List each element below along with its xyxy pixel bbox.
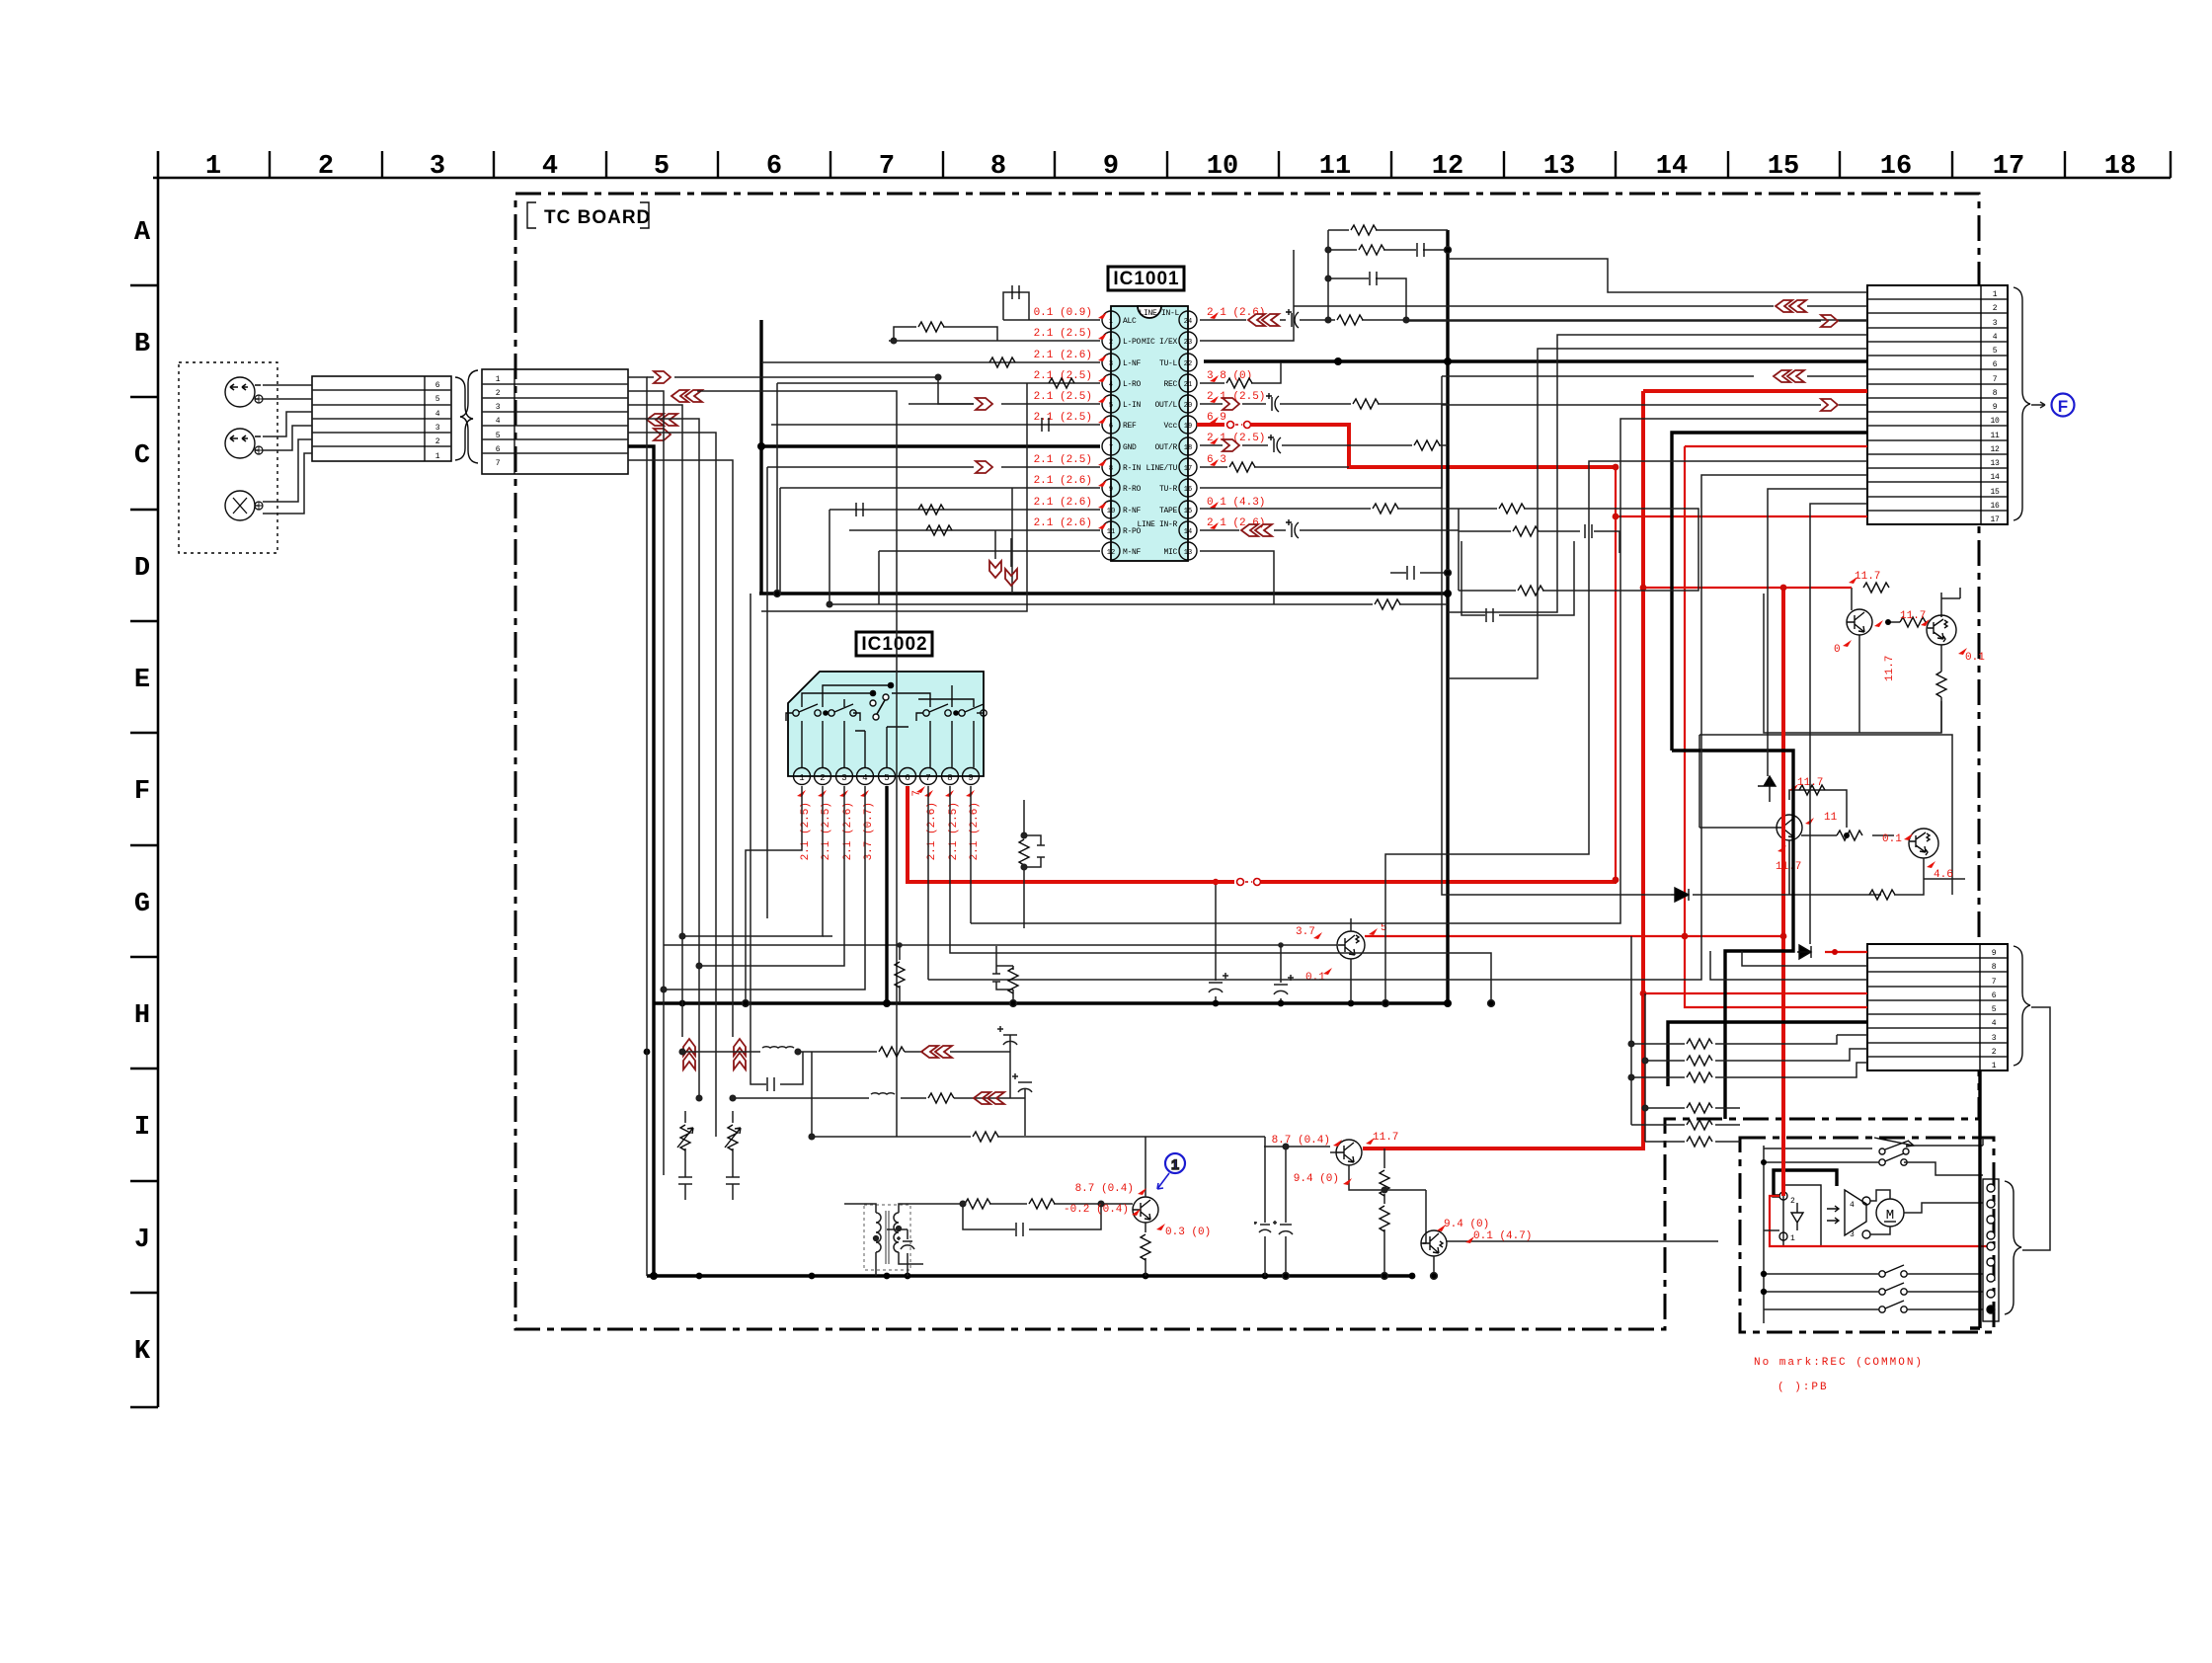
transistor Q1003 [1777,815,1802,840]
record safety switch [1874,1138,1914,1154]
IC1002 body [788,672,984,776]
pin1 ALC [1003,292,1100,320]
diode to cn9 pin9 with red stub [1797,945,1811,959]
svg-text:REC: REC [1163,380,1177,389]
svg-text:LINE/TU: LINE/TU [1145,464,1177,473]
switch contacts [786,704,987,721]
svg-text:7: 7 [911,790,923,797]
svg-text:2.1 (2.5): 2.1 (2.5) [1034,454,1092,466]
svg-text:R-NF: R-NF [1123,507,1142,515]
pin20 OUT/L [1200,403,1448,405]
svg-text:-0.2 (0.4): -0.2 (0.4) [1064,1204,1129,1216]
svg-text:8.7 (0.4): 8.7 (0.4) [1075,1183,1134,1195]
pin12 M-NF [879,550,1100,552]
pin3 L-NF [761,361,1100,363]
inner wires left side [1764,1146,1983,1175]
transistor Q1006 [1336,1140,1362,1165]
svg-text:12: 12 [1432,152,1463,182]
pin18 OUT/R [1200,444,1448,446]
svg-text:5: 5 [496,432,501,440]
svg-text:2: 2 [496,389,501,398]
svg-text:4: 4 [862,773,867,783]
transistor Q1007 [1421,1230,1447,1256]
svg-text:3: 3 [435,424,440,433]
loop left of cluster [1461,541,1574,615]
svg-text:14: 14 [1184,528,1192,536]
svg-text:2: 2 [1992,1048,1997,1057]
svg-text:2.1 (2.5): 2.1 (2.5) [1034,328,1092,340]
svg-text:5: 5 [435,395,440,404]
svg-text:MIC I/EX: MIC I/EX [1142,338,1178,347]
svg-text:16: 16 [1184,486,1192,494]
transistor Q1005 (G row) [664,879,1387,1007]
TC BOARD dash-dot outline [515,194,1979,1329]
transistor Q1008 [1133,1197,1158,1223]
pin13 MIC [1200,551,1448,604]
svg-text:2.1 (2.6): 2.1 (2.6) [1034,475,1092,487]
svg-text:11.7: 11.7 [1373,1132,1398,1144]
svg-text:1: 1 [1109,318,1113,326]
thick jct dots [644,357,1452,1280]
svg-text:LINE IN-R: LINE IN-R [1137,520,1177,529]
svg-text:Vcc: Vcc [1163,422,1177,431]
svg-text:3: 3 [1850,1230,1855,1239]
IC1001 body [1111,306,1188,561]
IC1002 label [856,632,932,656]
resistor-capacitor pair (R/C) lower [992,946,1013,1003]
svg-text:24: 24 [1184,318,1192,326]
svg-text:4: 4 [435,410,440,419]
svg-text:23: 23 [1184,339,1192,347]
internal pin drops [802,721,974,767]
svg-text:TAPE: TAPE [1159,507,1178,515]
svg-text:10: 10 [1990,417,2000,426]
svg-text:11.7: 11.7 [1855,571,1880,583]
svg-text:3: 3 [496,403,501,412]
jack J2 (LINE IN R) [225,429,263,458]
switch S2 [1879,1153,1907,1165]
svg-text:3.7: 3.7 [1296,926,1315,938]
jack J1 (LINE IN L) [225,377,263,407]
svg-text:9: 9 [968,773,973,783]
transistor Q1004 (digital) [1909,829,1938,858]
svg-text:7: 7 [925,773,930,783]
pin strip [1983,1179,1999,1321]
y=1151 row [812,1052,1265,1276]
RC between transformer and Q1 [963,1204,1133,1229]
svg-text:6: 6 [766,152,782,182]
svg-text:IC1001: IC1001 [1113,269,1179,289]
svg-text:7: 7 [496,459,501,468]
svg-text:9.4 (0): 9.4 (0) [1444,1219,1489,1230]
electrolytic on 1302 [1285,1147,1287,1276]
svg-text:8: 8 [1109,465,1113,473]
svg-text:1: 1 [1171,1156,1179,1172]
IC1001 label [1108,267,1184,290]
svg-text:5: 5 [654,152,670,182]
svg-text:L-PO: L-PO [1123,338,1142,347]
red vertical C [1685,446,1867,1007]
column numbers [205,152,2136,182]
svg-text:11: 11 [1990,432,2000,440]
svg-text:A: A [134,218,151,248]
svg-text:1: 1 [1790,1234,1795,1243]
pin6 REF [771,424,1100,426]
svg-text:I: I [134,1113,150,1143]
thick feed line from cn9 down into mech [1970,1070,1980,1328]
svg-text:C: C [134,441,150,471]
connector CN1002 (9 pin) [1867,944,2008,1070]
svg-text:5: 5 [884,773,889,783]
svg-text:2.1 (2.6): 2.1 (2.6) [1034,497,1092,509]
svg-text:0.3 (0): 0.3 (0) [1165,1227,1211,1238]
pin9 R-RO [780,487,1100,489]
transistor Q1002 (digital) [1927,615,1956,645]
pin15 TAPE network [1200,509,1698,591]
svg-text:R-IN: R-IN [1123,464,1142,473]
svg-text:11.7: 11.7 [1776,861,1801,873]
svg-text:2.1 (2.6): 2.1 (2.6) [1034,350,1092,361]
svg-text:10: 10 [1107,508,1115,515]
motor M1 [1876,1199,1904,1227]
svg-text:15: 15 [1184,508,1192,515]
svg-text:1: 1 [1993,290,1998,299]
top ruler horizontal line [153,177,2171,180]
svg-text:3: 3 [1109,360,1113,368]
svg-text:6: 6 [905,773,909,783]
mechanism dash-dot box (bottom right) [1740,1138,1994,1332]
svg-text:1: 1 [496,375,501,384]
svg-text:D: D [134,554,150,584]
caps to bus [887,1229,908,1276]
preset resistors [685,1111,733,1170]
svg-text:R-RO: R-RO [1123,485,1142,494]
svg-text:3: 3 [1993,319,1998,328]
svg-text:18: 18 [1184,444,1192,452]
svg-text:4: 4 [1109,381,1113,389]
pins 1-9 [794,768,980,785]
lower switches [1879,1265,1907,1277]
connector r11 thick staircase [1672,433,1867,1119]
pin14 LINE IN-R [1200,529,1459,531]
pin11 R-PO [849,529,1100,531]
Q1005 supply row [1365,935,1783,937]
svg-text:2: 2 [820,773,825,783]
svg-text:4: 4 [1992,1019,1997,1028]
svg-text:22: 22 [1184,360,1192,368]
svg-text:7: 7 [1993,375,1998,384]
svg-text:K: K [134,1337,151,1367]
svg-text:TU-L: TU-L [1159,359,1178,368]
svg-text:8: 8 [1993,389,1998,398]
connector block CN-A (cable side) [312,376,451,461]
svg-text:14: 14 [1990,473,2000,482]
svg-text:IC1002: IC1002 [861,634,927,655]
svg-text:E: E [134,666,150,695]
svg-text:10: 10 [1207,152,1238,182]
svg-text:LINE IN-L: LINE IN-L [1139,309,1179,318]
small caps near 1466 [1390,572,1448,574]
svg-text:2: 2 [1109,339,1113,347]
svg-text:L-NF: L-NF [1123,359,1142,368]
svg-text:4: 4 [496,417,501,426]
red junction dots [1613,464,1787,997]
down arrows [995,530,1011,567]
pin names [1123,317,1142,557]
svg-text:16: 16 [1990,502,2000,511]
svg-text:14: 14 [1656,152,1688,182]
pin4 L-RO [777,382,1100,384]
left thick vertical [759,320,762,594]
svg-text:11: 11 [1319,152,1351,182]
svg-text:B: B [134,330,150,359]
svg-text:H: H [134,1001,150,1031]
red probe arrows right pins [1210,312,1219,529]
brace + F flag [2014,287,2030,520]
jack enclosure dotted box [179,362,277,553]
svg-text:ALC: ALC [1123,317,1137,326]
svg-text:2.1 (2.6): 2.1 (2.6) [1034,517,1092,529]
loop wires [1764,588,1941,733]
branches off A [1643,587,1852,589]
svg-text:F: F [134,777,150,807]
svg-text:6.3: 6.3 [1207,454,1226,466]
svg-text:2: 2 [318,152,334,182]
wires jacks to CN-A [263,385,312,514]
svg-text:2: 2 [1993,304,1998,313]
svg-text:12: 12 [1107,549,1115,557]
svg-text:6.9: 6.9 [1207,412,1226,424]
svg-text:13: 13 [1184,549,1192,557]
svg-text:13: 13 [1543,152,1575,182]
left ruler vertical line [157,151,160,1407]
svg-text:9.4 (0): 9.4 (0) [1294,1173,1339,1185]
svg-text:F: F [2058,397,2068,416]
svg-text:L-RO: L-RO [1123,380,1142,389]
TC BOARD label [527,202,651,228]
svg-text:G: G [134,890,150,919]
svg-text:0.1 (0.9): 0.1 (0.9) [1034,307,1092,319]
GND pin7 to left bus [761,444,1100,447]
thick red drop D to mechanism [1781,588,1785,1196]
red voltages left [1034,307,1092,529]
pin23 [1200,250,1294,341]
svg-text:8.7 (0.4): 8.7 (0.4) [1272,1135,1330,1147]
svg-text:2: 2 [435,437,440,446]
pin17 row red [1616,515,1867,517]
svg-text:0: 0 [1834,644,1841,656]
cap loop under chain [750,1052,803,1084]
svg-text:9: 9 [1993,403,1998,412]
pin5 L-IN [908,403,1100,405]
svg-text:2.1 (2.5): 2.1 (2.5) [1034,391,1092,403]
svg-text:L-IN: L-IN [1123,401,1142,410]
svg-text:TU-R: TU-R [1159,485,1178,494]
transistor Q1001 [1847,609,1872,635]
svg-text:8: 8 [947,773,952,783]
svg-text:16: 16 [1880,152,1912,182]
svg-text:15: 15 [1768,152,1799,182]
svg-text:M-NF: M-NF [1123,548,1142,557]
pin16 TU-R to r7 [1200,376,1867,488]
svg-text:17: 17 [1184,465,1192,473]
svg-text:3: 3 [430,152,445,182]
pin24 [1200,319,1867,321]
IC1002 pin drops to left [746,786,802,1003]
chain y=1112 [733,1088,1025,1136]
pin17 LINE/TU [1200,466,1349,468]
svg-text:13: 13 [1990,459,2000,468]
svg-text:3: 3 [1992,1034,1997,1043]
IC1002 pin5 down [885,786,888,1003]
pins right 24-13 [1179,311,1197,560]
svg-text:17: 17 [1990,515,2000,524]
arrows right of CN-B [654,371,671,383]
Vcc pin19 feed with service switch gap [1197,423,1224,427]
svg-text:REF: REF [1123,422,1137,431]
left ticks [130,285,158,1407]
svg-text:9: 9 [1103,152,1119,182]
svg-text:11: 11 [1107,528,1115,536]
svg-text:12: 12 [1990,445,2000,454]
svg-text:5: 5 [1992,1005,1997,1014]
pin8 R-IN [908,466,1100,468]
red labels [1834,571,1985,681]
cable link braces [455,377,473,460]
red vertical B [1615,467,1617,880]
chain y=1065 [682,1035,1010,1098]
svg-text:J: J [134,1226,150,1255]
svg-text:4.6: 4.6 [1934,869,1953,881]
svg-text:1: 1 [799,773,804,783]
red probe arrows left pins [1098,312,1107,529]
svg-text:6: 6 [1109,423,1113,431]
svg-text:8: 8 [1992,963,1997,972]
svg-text:20: 20 [1184,402,1192,410]
red probe arrows under pins [797,786,975,797]
svg-text:8: 8 [990,152,1006,182]
red path in mech box [1770,1196,1987,1246]
svg-text:1: 1 [205,152,221,182]
transformer T1001 [864,1205,910,1270]
svg-text:6: 6 [496,445,501,454]
row letters [134,218,151,1367]
svg-text:6: 6 [1993,360,1998,369]
rotated red voltages [800,790,981,860]
resistor R (11.7V rail) [1863,583,1889,593]
svg-text:OUT/L: OUT/L [1154,401,1177,410]
svg-text:7: 7 [1109,444,1113,452]
svg-text:7: 7 [1992,978,1997,987]
diode D (up) near cluster [1758,776,1776,802]
connector CN1001 (17 pin) [1867,285,2008,524]
svg-text:6: 6 [435,381,440,390]
opto-isolator PH1001 [1783,1185,1821,1246]
svg-text:0.1: 0.1 [1305,972,1325,984]
svg-text:6: 6 [1992,991,1997,1000]
svg-text:OUT/R: OUT/R [1154,443,1177,452]
red vertical A (main) [1363,391,1643,1148]
pin2 L-PO [889,327,1100,341]
bottom bus [647,1274,1412,1277]
mech box top feed [1982,1138,1984,1146]
IC1002 pin6 supply with gap [908,786,1234,882]
up arrows [682,1017,733,1037]
top feedback network [1328,230,1448,320]
red voltages right [1207,307,1265,529]
pin21 REC [1200,362,1281,383]
connector block CN-B (board side) [482,369,628,474]
mid thick ring [655,230,1448,1003]
svg-text:TC BOARD: TC BOARD [544,207,651,228]
base feed Q1 [1264,1146,1330,1148]
svg-text:4: 4 [1850,1201,1855,1210]
svg-text:0.1: 0.1 [1882,833,1902,845]
svg-text:11.7: 11.7 [1884,656,1896,681]
svg-text:5: 5 [1109,402,1113,410]
cn9 row4 thick [1668,1022,1867,1086]
svg-text:0.1: 0.1 [1965,652,1985,664]
internal wiring [802,682,974,720]
svg-text:MIC: MIC [1163,548,1177,557]
TU-L pin22 to connector pin6 [1204,359,1867,362]
svg-text:9: 9 [1992,949,1997,958]
svg-text:1: 1 [435,452,440,461]
svg-text:4: 4 [542,152,558,182]
node callout 1 [1165,1153,1185,1173]
resistor-capacitor pair (R/C) upper [1024,800,1045,928]
black thick loop around opto [1774,1170,1837,1196]
mech legend [1754,1357,1924,1393]
svg-text:0.1 (4.7): 0.1 (4.7) [1473,1230,1532,1242]
svg-text:18: 18 [2104,152,2136,182]
svg-text:7: 7 [879,152,895,182]
svg-text:17: 17 [1993,152,2024,182]
pins left 1-12 [1102,311,1120,560]
svg-text:2: 2 [1790,1197,1795,1206]
svg-text:11: 11 [1824,812,1838,824]
svg-text:No mark:REC (COMMON): No mark:REC (COMMON) [1754,1357,1924,1369]
svg-text:21: 21 [1184,381,1192,389]
pin10 R-NF [829,509,1100,511]
svg-text:4: 4 [1993,333,1998,342]
svg-text:3: 3 [841,773,846,783]
svg-text:19: 19 [1184,423,1192,431]
svg-text:( ):PB: ( ):PB [1777,1382,1829,1393]
pin numbers [1107,318,1192,557]
svg-text:GND: GND [1123,443,1137,452]
CN-B ground drop [628,446,654,1276]
svg-text:5: 5 [1993,347,1998,356]
jack J3 (MIC) [225,491,263,520]
svg-text:1: 1 [1992,1062,1997,1070]
svg-text:11.7: 11.7 [1900,610,1926,622]
svg-text:15: 15 [1990,488,2000,497]
top ticks [270,151,2171,178]
svg-text:9: 9 [1109,486,1113,494]
